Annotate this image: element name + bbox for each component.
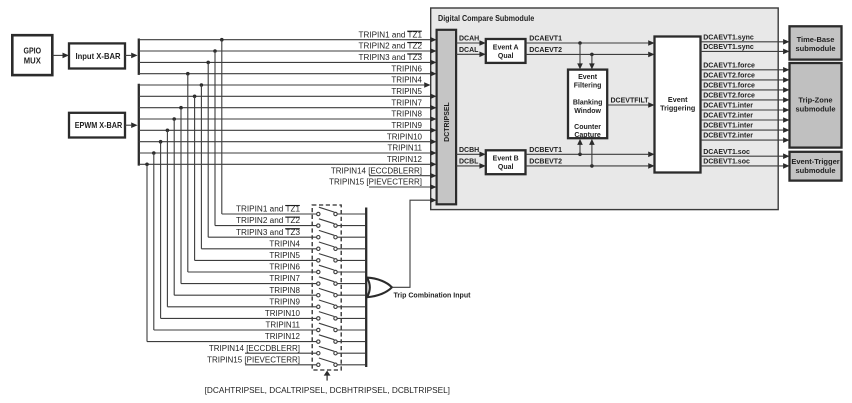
wire TRIPIN8 switch to collector bus	[337, 294, 365, 296]
svg-text:TRIPIN6: TRIPIN6	[269, 263, 300, 272]
svg-text:Event: Event	[578, 74, 598, 81]
wire TRIPIN7 (mux row 7)	[181, 283, 317, 285]
wire TRIPIN12 (mux row 12)	[147, 341, 317, 343]
svg-text:TRIPIN5: TRIPIN5	[391, 87, 422, 96]
svg-text:TRIPIN8: TRIPIN8	[269, 286, 300, 295]
label TRIPIN4 (lower)	[269, 239, 300, 248]
svg-text:TRIPIN10: TRIPIN10	[265, 309, 301, 318]
label DCBEVT1	[529, 147, 562, 154]
svg-text:DCEVTFILT: DCEVTFILT	[611, 98, 650, 105]
svg-text:DCAEVT1.inter: DCAEVT1.inter	[703, 103, 753, 110]
svg-text:Event-Trigger: Event-Trigger	[791, 157, 839, 166]
block EPWM X-BAR	[69, 113, 125, 138]
label DCBEVT1.force	[703, 83, 755, 90]
svg-text:DCBEVT1.inter: DCBEVT1.inter	[703, 123, 753, 130]
label TRIPIN6 (lower)	[269, 263, 300, 272]
label TRIPIN2 and TZ2 (lower)	[236, 216, 301, 225]
switch TRIPIN12	[317, 335, 338, 344]
label [DCAHTRIPSEL, DCALTRIPSEL, DCBHTRIPSEL, DCBLTRIPSEL]	[205, 386, 450, 395]
junction dot TRIPIN3 and TZ3	[206, 61, 210, 65]
label DCAEVT1.sync	[703, 34, 754, 41]
label TRIPIN9	[391, 121, 422, 130]
wire TRIPIN10 switch to collector bus	[337, 317, 365, 319]
wire TRIPIN14 [ECCDBLERR] switch to collector bus	[337, 352, 365, 354]
wire TRIPIN2 and TZ2 (top row 2)	[139, 48, 437, 54]
label TRIPIN7	[391, 98, 422, 107]
wire drop TRIPIN6 to lower mux row	[187, 74, 189, 272]
wire TRIPIN1 and TZ1 switch to collector bus	[337, 213, 365, 215]
wire GPIO MUX to Input X-BAR	[52, 53, 69, 59]
wire TRIPIN2 and TZ2 switch to collector bus	[337, 225, 365, 227]
svg-text:TRIPIN11: TRIPIN11	[265, 321, 300, 330]
svg-text:submodule: submodule	[795, 44, 835, 53]
wire TRIPIN10 (mux row 10)	[161, 317, 317, 319]
wire TRIPIN11 switch to collector bus	[337, 329, 365, 331]
block DCTRIPSEL	[437, 30, 457, 205]
label Trip Combination Input	[394, 291, 471, 300]
wire DCAEVT1.sync	[701, 39, 790, 45]
label TRIPIN10 (lower)	[265, 309, 301, 318]
wire DCBEVT1 to Event Filtering	[577, 139, 583, 154]
wire TRIPIN3 and TZ3 (mux row 3)	[208, 236, 316, 238]
label TRIPIN6	[391, 64, 422, 73]
wire drop TRIPIN11 to lower mux row	[153, 153, 155, 330]
wire TRIPIN12 (top row 12)	[139, 162, 437, 168]
svg-text:TRIPIN8: TRIPIN8	[391, 110, 422, 119]
label TRIPIN3 and TZ3 (lower)	[236, 228, 301, 237]
wire TRIPIN4 (top row 5)	[139, 82, 431, 88]
svg-text:TRIPIN14 [ECCDBLERR]: TRIPIN14 [ECCDBLERR]	[209, 344, 300, 353]
label TRIPIN15 [PIEVECTERR]	[329, 178, 422, 187]
wire TRIPIN6 (top row 4)	[139, 71, 437, 77]
wire TRIPIN15 [PIEVECTERR] (mux row 14)	[245, 364, 317, 366]
label TRIPIN14 [ECCDBLERR]	[331, 166, 422, 175]
svg-text:DCAEVT1.force: DCAEVT1.force	[703, 62, 755, 69]
wire DCAEVT1	[526, 40, 655, 46]
svg-text:DCBH: DCBH	[459, 147, 479, 154]
switch TRIPIN6	[317, 265, 338, 273]
switch TRIPIN14 [ECCDBLERR]	[317, 346, 338, 355]
svg-text:Triggering: Triggering	[660, 104, 695, 113]
label DCAEVT2	[529, 47, 562, 54]
junction dot TRIPIN7	[179, 106, 183, 110]
wire DCBH	[456, 152, 486, 158]
wire Input X-BAR to trip bus 1	[125, 53, 138, 59]
svg-text:TRIPIN14 [ECCDBLERR]: TRIPIN14 [ECCDBLERR]	[331, 166, 422, 175]
junction dot TRIPIN8	[172, 117, 176, 121]
wire drop TRIPIN2 and TZ2 to lower mux row	[214, 51, 216, 226]
wire TRIPIN15 [PIEVECTERR] switch to collector bus	[337, 364, 365, 366]
block Event Filtering / Blanking Window / Counter Capture	[568, 70, 607, 140]
wire DCBEVT1	[526, 152, 655, 158]
junction dot TRIPIN1 and TZ1	[220, 38, 224, 42]
svg-text:DCTRIPSEL: DCTRIPSEL	[444, 101, 451, 141]
svg-text:Qual: Qual	[498, 164, 514, 171]
svg-text:TRIPIN5: TRIPIN5	[269, 251, 300, 260]
label TRIPIN12	[387, 155, 423, 164]
bus from Input X-BAR (TRIPIN1-3,6)	[138, 39, 140, 75]
wire TRIPIN15 [PIEVECTERR] (top row 14)	[369, 184, 437, 190]
svg-text:Blanking: Blanking	[573, 99, 603, 106]
junction dot DCAEVT2	[590, 53, 594, 57]
label TRIPIN10	[387, 132, 423, 141]
switch TRIPIN2 and TZ2	[317, 219, 338, 228]
svg-text:TRIPIN10: TRIPIN10	[387, 132, 423, 141]
svg-text:Time-Base: Time-Base	[797, 35, 835, 44]
label DCAEVT2.inter	[703, 113, 753, 120]
svg-text:DCBEVT2.force: DCBEVT2.force	[703, 93, 755, 100]
wire TRIPIN6 (mux row 6)	[188, 271, 317, 273]
wire TRIPIN1 and TZ1 (mux row 1)	[222, 213, 317, 215]
wire TRIPIN6 switch to collector bus	[337, 271, 365, 273]
svg-text:Trip Combination Input: Trip Combination Input	[394, 291, 471, 300]
svg-text:TRIPIN9: TRIPIN9	[391, 121, 422, 130]
svg-text:TRIPIN15 [PIEVECTERR]: TRIPIN15 [PIEVECTERR]	[329, 178, 422, 187]
label DCEVTFILT	[611, 98, 650, 105]
junction dot TRIPIN9	[166, 129, 170, 133]
wire OR gate output to DCTRIPSEL	[392, 197, 437, 287]
wire DCEVTFILT	[607, 102, 654, 108]
wire DCAL	[456, 52, 486, 58]
svg-text:submodule: submodule	[795, 166, 835, 175]
wire drop TRIPIN8 to lower mux row	[173, 119, 175, 295]
svg-text:Window: Window	[574, 108, 601, 115]
wire TRIPIN3 and TZ3 switch to collector bus	[337, 236, 365, 238]
wire drop TRIPIN1 and TZ1 to lower mux row	[221, 40, 223, 214]
block Event-Trigger submodule	[790, 152, 842, 181]
svg-text:TRIPIN9: TRIPIN9	[269, 297, 300, 306]
wire drop TRIPIN7 to lower mux row	[180, 108, 182, 284]
svg-text:DCBEVT2: DCBEVT2	[529, 159, 562, 166]
wire TRIPIN5 switch to collector bus	[337, 259, 365, 261]
label TRIPIN8 (lower)	[269, 286, 300, 295]
switch TRIPIN7	[317, 277, 338, 286]
wire TRIPIN8 (top row 8)	[139, 116, 437, 122]
label TRIPIN11 (lower)	[265, 321, 300, 330]
wire DCBEVT2.inter	[701, 137, 790, 143]
label DCAEVT1.inter	[703, 103, 753, 110]
junction dot TRIPIN12	[145, 163, 149, 167]
switch TRIPIN11	[317, 323, 338, 331]
junction dot TRIPIN2 and TZ2	[213, 49, 217, 53]
trip mux dashed selector box	[312, 205, 341, 370]
wire DCBEVT2	[526, 163, 655, 169]
label TRIPIN15 [PIEVECTERR] (lower)	[207, 355, 300, 364]
label TRIPIN5 (lower)	[269, 251, 300, 260]
label TRIPIN9 (lower)	[269, 297, 300, 306]
wire DCBEVT1.inter	[701, 127, 790, 133]
label DCBEVT1.soc	[703, 159, 750, 166]
wire DCBEVT1.force	[701, 87, 790, 93]
svg-text:DCAL: DCAL	[459, 47, 479, 54]
block Event Triggering	[655, 37, 701, 173]
wire TRIPIN11 (top row 11)	[139, 150, 437, 156]
wire drop TRIPIN10 to lower mux row	[160, 142, 162, 319]
junction dot TRIPIN4	[200, 83, 204, 87]
block Event A Qual	[486, 39, 526, 63]
wire drop TRIPIN5 to lower mux row	[194, 96, 196, 260]
junction dot TRIPIN5	[193, 95, 197, 99]
svg-text:Filtering: Filtering	[574, 83, 602, 90]
wire TRIPIN14 [ECCDBLERR] (mux row 13)	[245, 352, 317, 354]
label TRIPIN11	[387, 144, 422, 153]
svg-text:Trip-Zone: Trip-Zone	[798, 96, 832, 105]
svg-text:DCAEVT1.sync: DCAEVT1.sync	[703, 34, 754, 41]
wire DCBEVT2 to Event Filtering	[589, 139, 595, 166]
svg-text:TRIPIN12: TRIPIN12	[265, 332, 301, 341]
label TRIPIN8	[391, 110, 422, 119]
svg-text:DCBEVT1.sync: DCBEVT1.sync	[703, 44, 754, 51]
junction dot DCBEVT2	[590, 164, 594, 168]
wire drop TRIPIN3 and TZ3 to lower mux row	[207, 62, 209, 237]
svg-text:Capture: Capture	[574, 132, 601, 139]
svg-text:DCBEVT1.force: DCBEVT1.force	[703, 83, 755, 90]
block Event B Qual	[486, 150, 526, 174]
switch TRIPIN8	[317, 288, 338, 297]
svg-text:TRIPIN15 [PIEVECTERR]: TRIPIN15 [PIEVECTERR]	[207, 355, 300, 364]
switch TRIPIN10	[317, 312, 338, 320]
svg-text:TRIPIN6: TRIPIN6	[391, 64, 422, 73]
wire TRIPIN12 switch to collector bus	[337, 341, 365, 343]
svg-text:TRIPIN7: TRIPIN7	[269, 274, 300, 283]
svg-text:TRIPIN12: TRIPIN12	[387, 155, 423, 164]
switch TRIPIN9	[317, 300, 338, 308]
label DCAH	[459, 36, 479, 43]
label TRIPIN5	[391, 87, 422, 96]
wire TRIPIN1 and TZ1 (top row 1)	[139, 37, 437, 43]
label TRIPIN1 and TZ1	[359, 30, 423, 39]
wire TRIPIN3 and TZ3 (top row 3)	[139, 60, 437, 66]
svg-text:Qual: Qual	[498, 53, 514, 60]
label DCAEVT2.force	[703, 73, 755, 80]
label TRIPIN12 (lower)	[265, 332, 301, 341]
label DCBEVT2	[529, 159, 562, 166]
junction dot DCAEVT1	[578, 41, 582, 45]
bus from EPWM X-BAR (TRIPIN4-12)	[138, 84, 140, 166]
label DCBEVT2.inter	[703, 133, 753, 140]
switch TRIPIN15 [PIEVECTERR]	[317, 358, 338, 366]
block Digital Compare Submodule (background)	[431, 8, 779, 210]
junction dot TRIPIN10	[159, 140, 163, 144]
switch TRIPIN3 and TZ3	[317, 230, 338, 239]
label DCBH	[459, 147, 479, 154]
wire DCBEVT2.force	[701, 97, 790, 103]
switch TRIPIN4	[317, 242, 338, 251]
label TRIPIN3 and TZ3	[359, 53, 423, 62]
wire DCAH	[456, 40, 486, 46]
junction dot TRIPIN6	[186, 72, 190, 76]
block Time-Base submodule	[790, 26, 842, 59]
svg-text:GPIO: GPIO	[24, 46, 42, 56]
arrow DCxTRIPSEL select into mux	[324, 371, 331, 381]
junction dot TRIPIN11	[152, 151, 156, 155]
svg-text:TRIPIN7: TRIPIN7	[391, 98, 422, 107]
svg-text:DCAEVT2.inter: DCAEVT2.inter	[703, 113, 753, 120]
wire TRIPIN7 switch to collector bus	[337, 283, 365, 285]
wire drop TRIPIN9 to lower mux row	[166, 130, 168, 306]
svg-text:Event B: Event B	[493, 156, 519, 163]
wire TRIPIN7 (top row 7)	[139, 105, 437, 111]
svg-text:Digital Compare Submodule: Digital Compare Submodule	[438, 14, 535, 23]
svg-text:DCAEVT1: DCAEVT1	[529, 36, 562, 43]
svg-text:DCBL: DCBL	[459, 159, 479, 166]
wire TRIPIN8 (mux row 8)	[174, 294, 316, 296]
label DCAL	[459, 47, 479, 54]
svg-text:Event A: Event A	[493, 44, 519, 51]
svg-text:DCAEVT2: DCAEVT2	[529, 47, 562, 54]
wire TRIPIN2 and TZ2 (mux row 2)	[215, 225, 317, 227]
svg-text:DCBEVT2.inter: DCBEVT2.inter	[703, 133, 753, 140]
wire DCAEVT1.soc	[701, 153, 790, 159]
label DCBEVT1.sync	[703, 44, 754, 51]
svg-text:TRIPIN11: TRIPIN11	[387, 144, 422, 153]
svg-text:[DCAHTRIPSEL, DCALTRIPSEL, DCB: [DCAHTRIPSEL, DCALTRIPSEL, DCBHTRIPSEL, …	[205, 386, 450, 395]
label DCAEVT1.force	[703, 62, 755, 69]
label TRIPIN4	[391, 76, 422, 85]
svg-text:DCAEVT1.soc: DCAEVT1.soc	[703, 149, 750, 156]
svg-text:Input X-BAR: Input X-BAR	[75, 51, 120, 61]
wire DCAEVT1.force	[701, 67, 790, 73]
wire DCAEVT2.inter	[701, 117, 790, 123]
wire DCAEVT2 to Event Filtering	[589, 54, 595, 69]
wire DCAEVT2	[526, 52, 655, 58]
svg-text:DCBEVT1.soc: DCBEVT1.soc	[703, 159, 750, 166]
wire DCBL	[456, 163, 486, 169]
svg-text:EPWM X-BAR: EPWM X-BAR	[75, 120, 123, 130]
svg-text:DCBEVT1: DCBEVT1	[529, 147, 562, 154]
wire EPWM X-BAR to trip bus 2	[125, 122, 138, 128]
wire TRIPIN4 switch to collector bus	[337, 248, 365, 250]
block GPIO MUX	[12, 35, 52, 75]
label DCBL	[459, 159, 479, 166]
svg-text:TRIPIN4: TRIPIN4	[391, 76, 422, 85]
block Trip-Zone submodule	[790, 63, 842, 148]
label DCBEVT1.inter	[703, 123, 753, 130]
wire TRIPIN14 [ECCDBLERR] (top row 13)	[369, 173, 437, 179]
svg-text:submodule: submodule	[795, 105, 835, 114]
junction dot DCBEVT1	[578, 153, 582, 157]
svg-text:Counter: Counter	[574, 124, 601, 131]
label DCBEVT2.force	[703, 93, 755, 100]
label DCAEVT1.soc	[703, 149, 750, 156]
switch TRIPIN1 and TZ1	[317, 207, 338, 216]
svg-text:MUX: MUX	[24, 56, 41, 66]
label TRIPIN2 and TZ2	[359, 42, 423, 51]
wire TRIPIN11 (mux row 11)	[154, 329, 317, 331]
label DCAEVT1	[529, 36, 562, 43]
label TRIPIN7 (lower)	[269, 274, 300, 283]
switch TRIPIN5	[317, 254, 338, 262]
OR gate Trip Combination Input	[367, 278, 392, 298]
wire DCAEVT2.force	[701, 77, 790, 83]
wire TRIPIN9 switch to collector bus	[337, 306, 365, 308]
svg-text:DCAH: DCAH	[459, 36, 479, 43]
label TRIPIN1 and TZ1 (lower)	[236, 205, 301, 214]
wire drop TRIPIN12 to lower mux row	[146, 164, 148, 341]
wire drop TRIPIN4 to lower mux row	[200, 85, 202, 249]
svg-text:DCAEVT2.force: DCAEVT2.force	[703, 73, 755, 80]
wire DCBEVT1.sync	[701, 49, 790, 55]
wire TRIPIN4 (mux row 4)	[201, 248, 316, 250]
svg-text:TRIPIN4: TRIPIN4	[269, 239, 300, 248]
label TRIPIN14 [ECCDBLERR] (lower)	[209, 344, 300, 353]
wire TRIPIN10 (top row 10)	[139, 139, 437, 145]
wire TRIPIN5 (mux row 5)	[195, 259, 317, 261]
collector bus into OR gate	[365, 208, 367, 368]
wire DCBEVT1.soc	[701, 163, 790, 169]
wire DCAEVT1.inter	[701, 107, 790, 113]
wire TRIPIN9 (mux row 9)	[167, 306, 316, 308]
wire TRIPIN5 (top row 6)	[139, 94, 437, 100]
wire DCAEVT1 to Event Filtering	[577, 43, 583, 69]
block Input X-BAR	[69, 43, 125, 68]
wire TRIPIN9 (top row 9)	[139, 128, 437, 134]
